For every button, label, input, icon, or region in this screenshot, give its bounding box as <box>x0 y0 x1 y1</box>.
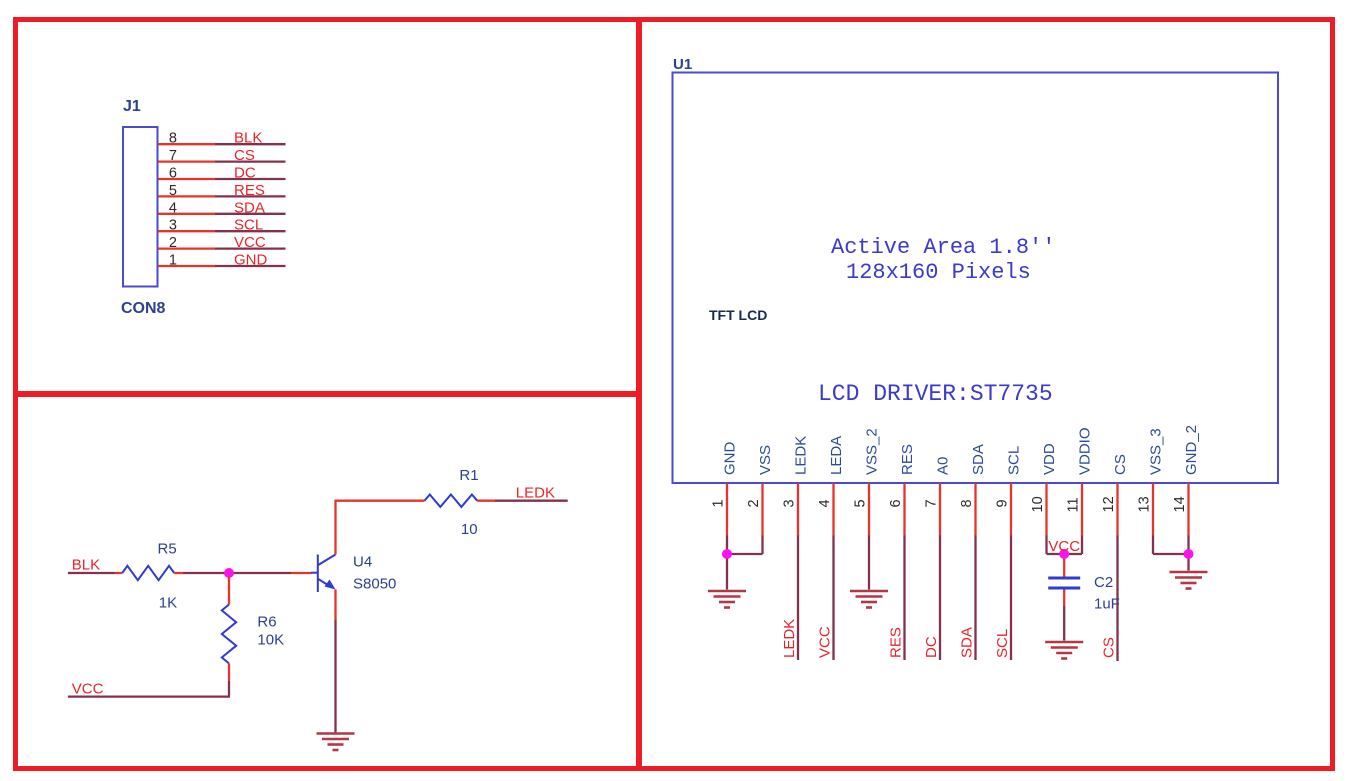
svg-text:CS: CS <box>1112 454 1129 475</box>
svg-text:SCL: SCL <box>234 217 263 234</box>
svg-text:7: 7 <box>169 148 177 164</box>
svg-text:2: 2 <box>169 235 177 251</box>
svg-text:14: 14 <box>1172 496 1188 512</box>
svg-text:SCL: SCL <box>1006 446 1023 475</box>
svg-text:R6: R6 <box>257 614 276 631</box>
svg-text:RES: RES <box>234 182 265 199</box>
svg-text:LCD DRIVER:ST7735: LCD DRIVER:ST7735 <box>818 381 1053 407</box>
svg-text:LEDK: LEDK <box>516 485 555 502</box>
svg-text:LEDK: LEDK <box>793 436 810 475</box>
svg-text:A0: A0 <box>935 457 952 475</box>
svg-text:J1: J1 <box>123 98 141 115</box>
svg-text:5: 5 <box>853 499 869 507</box>
svg-text:12: 12 <box>1101 496 1117 512</box>
svg-text:1: 1 <box>711 499 727 507</box>
svg-text:6: 6 <box>888 499 904 507</box>
svg-text:SCL: SCL <box>994 629 1011 658</box>
svg-text:VCC: VCC <box>1048 538 1080 555</box>
svg-text:LEDK: LEDK <box>781 619 798 658</box>
svg-text:SDA: SDA <box>234 199 265 216</box>
svg-text:128x160 Pixels: 128x160 Pixels <box>846 260 1031 285</box>
svg-text:LEDA: LEDA <box>828 436 845 475</box>
svg-text:8: 8 <box>959 499 975 507</box>
svg-text:VDDIO: VDDIO <box>1077 427 1094 475</box>
svg-text:VCC: VCC <box>817 626 834 658</box>
svg-text:1K: 1K <box>159 594 177 611</box>
svg-text:U4: U4 <box>353 554 372 571</box>
svg-text:TFT LCD: TFT LCD <box>709 307 767 323</box>
svg-text:4: 4 <box>169 200 177 216</box>
svg-text:RES: RES <box>888 627 905 658</box>
svg-text:13: 13 <box>1137 496 1153 512</box>
svg-text:10: 10 <box>461 521 478 538</box>
svg-text:10K: 10K <box>257 631 284 648</box>
svg-text:BLK: BLK <box>234 130 262 147</box>
svg-text:C2: C2 <box>1094 574 1113 591</box>
svg-text:GND: GND <box>234 252 268 269</box>
svg-text:DC: DC <box>234 165 256 182</box>
svg-text:R1: R1 <box>459 467 478 484</box>
svg-text:DC: DC <box>923 636 940 658</box>
svg-text:9: 9 <box>995 499 1011 507</box>
svg-text:S8050: S8050 <box>353 576 396 593</box>
svg-text:2: 2 <box>746 499 762 507</box>
svg-text:11: 11 <box>1066 497 1082 512</box>
svg-text:1: 1 <box>169 253 177 269</box>
svg-text:SDA: SDA <box>959 627 976 658</box>
svg-text:10: 10 <box>1030 496 1046 512</box>
svg-text:VSS_3: VSS_3 <box>1148 428 1165 475</box>
svg-text:VSS_2: VSS_2 <box>864 428 881 475</box>
svg-text:VCC: VCC <box>72 681 104 698</box>
svg-text:CS: CS <box>234 147 255 164</box>
svg-text:BLK: BLK <box>72 557 100 574</box>
svg-text:SDA: SDA <box>970 444 987 475</box>
svg-text:3: 3 <box>169 218 177 234</box>
svg-text:7: 7 <box>924 499 940 507</box>
svg-text:GND: GND <box>722 442 739 476</box>
svg-text:1uF: 1uF <box>1094 596 1120 613</box>
svg-text:Active Area 1.8'': Active Area 1.8'' <box>831 235 1055 260</box>
svg-text:3: 3 <box>782 499 798 507</box>
svg-text:4: 4 <box>817 499 833 507</box>
svg-text:U1: U1 <box>673 56 692 73</box>
svg-text:GND_2: GND_2 <box>1183 425 1200 475</box>
svg-text:R5: R5 <box>158 541 177 558</box>
svg-text:VSS: VSS <box>757 445 774 475</box>
svg-text:CON8: CON8 <box>121 300 166 317</box>
svg-text:CS: CS <box>1101 637 1118 658</box>
svg-text:5: 5 <box>169 183 177 199</box>
svg-text:6: 6 <box>169 166 177 182</box>
svg-text:VCC: VCC <box>234 234 266 251</box>
svg-text:RES: RES <box>899 444 916 475</box>
svg-text:8: 8 <box>169 131 177 147</box>
svg-text:VDD: VDD <box>1041 443 1058 475</box>
